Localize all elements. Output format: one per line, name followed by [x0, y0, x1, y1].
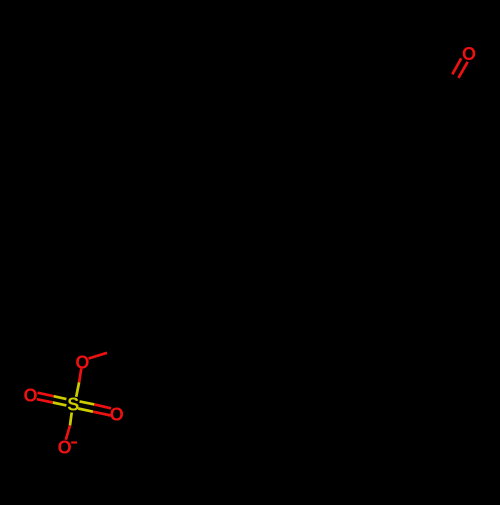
bond C3-O (ester, red half toward O) [89, 353, 108, 359]
bond S-O- (red half) [66, 425, 70, 439]
double bond S=O right, upper line (yellow half) [80, 401, 95, 404]
double bond S=O right, lower line (yellow half) [78, 409, 93, 412]
double bond S=O right, lower line (red half) [93, 412, 111, 416]
svg-text:O: O [23, 386, 37, 406]
double bond S=O left, upper line (yellow half) [54, 396, 67, 399]
svg-text:O: O [110, 404, 124, 424]
bond O-S (yellow half) [76, 382, 79, 397]
svg-text:O: O [462, 44, 476, 64]
charge minus sign on O- [71, 441, 77, 443]
double bond S=O right, upper line (red half) [94, 404, 111, 408]
svg-text:S: S [67, 395, 79, 415]
svg-text:O: O [58, 438, 72, 458]
double bond S=O left, lower line (yellow half) [53, 403, 67, 406]
double bond S=O left, lower line (red half) [37, 399, 53, 402]
ketone C17=O double bond (red halves) [452, 58, 467, 78]
double bond S=O left, upper line (red half) [38, 393, 54, 397]
bond O-S (red half) [79, 369, 81, 383]
bond S-O- (yellow half) [70, 413, 72, 426]
